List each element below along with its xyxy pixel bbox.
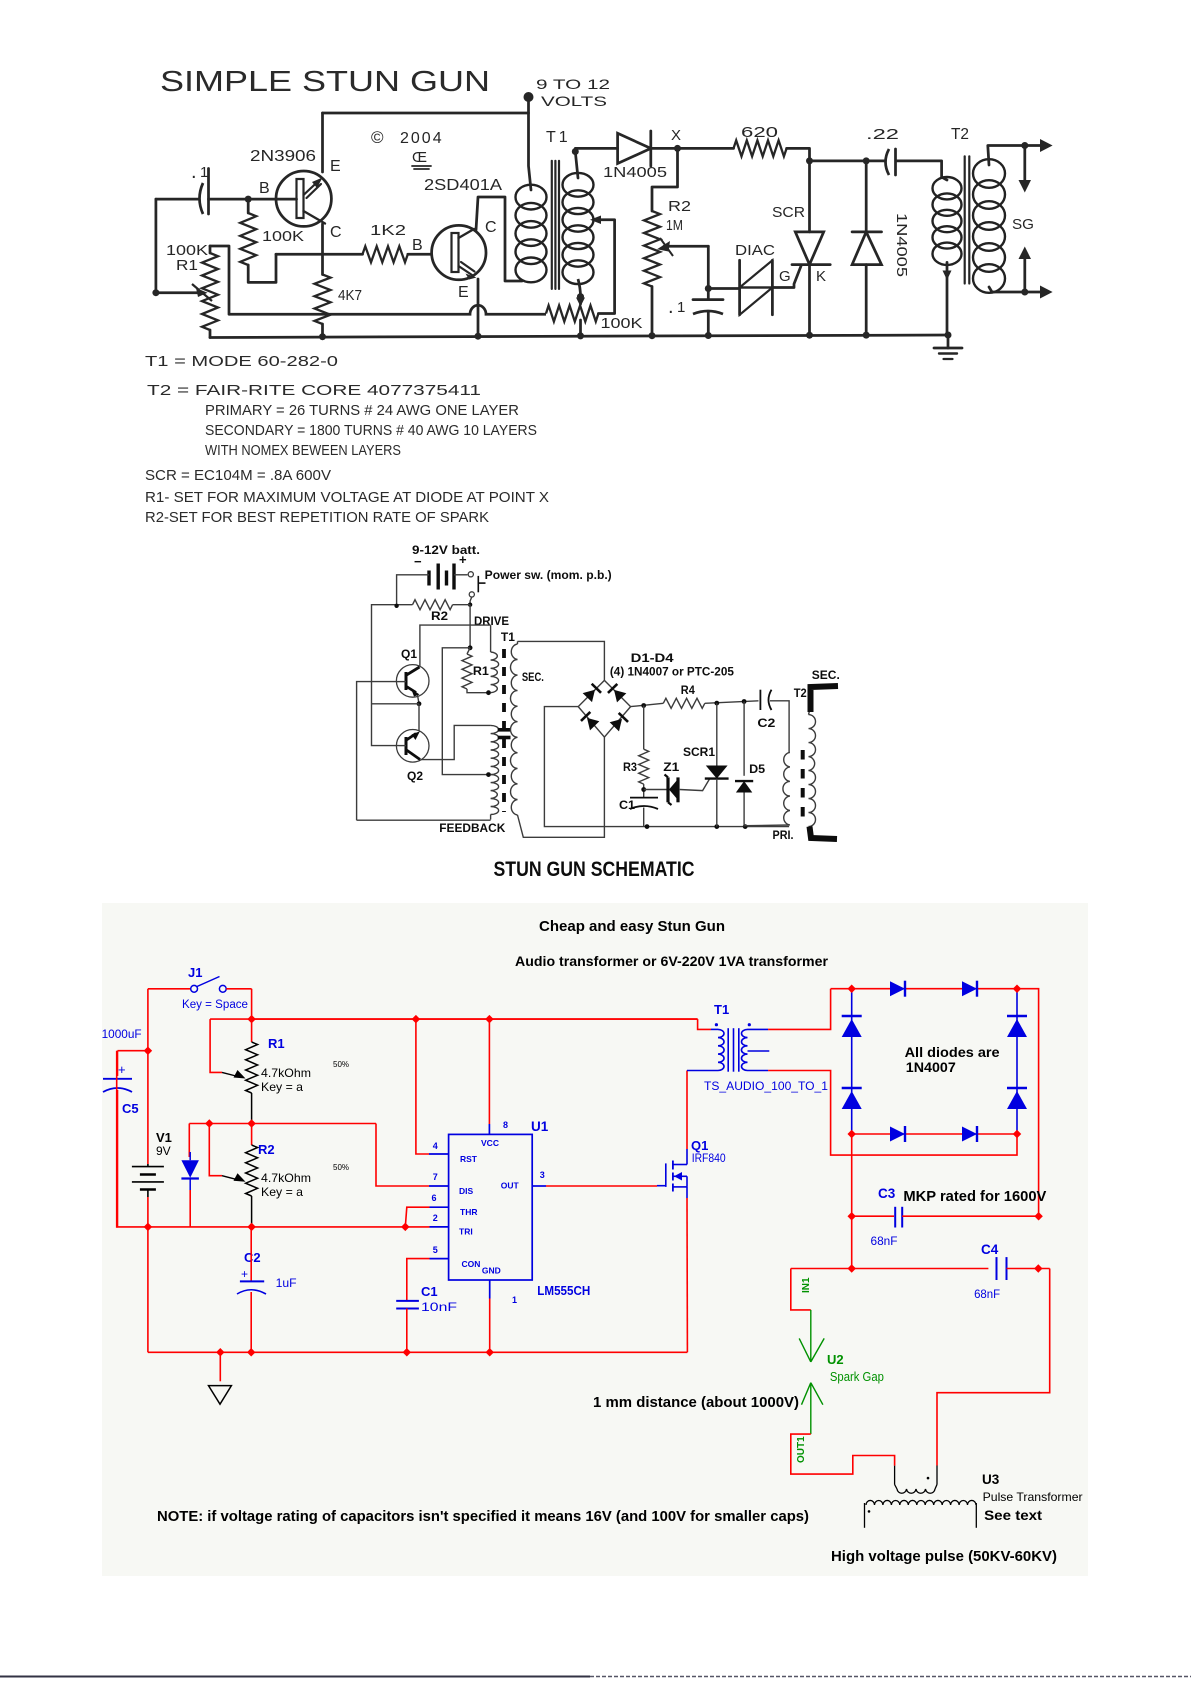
svg-text:OUT: OUT — [501, 1181, 520, 1191]
mid rail — [189, 1123, 376, 1125]
svg-text:.: . — [668, 296, 675, 318]
zener Z1 — [644, 789, 667, 791]
svg-text:G: G — [779, 268, 792, 285]
transformer T2 core — [964, 156, 966, 283]
svg-text:NOTE: if voltage rating of cap: NOTE: if voltage rating of capacitors is… — [157, 1509, 809, 1525]
svg-text:V1: V1 — [156, 1130, 172, 1145]
svg-text:Power sw. (mom. p.b.): Power sw. (mom. p.b.) — [485, 568, 612, 582]
wire collector Q2 to T1 primary — [476, 197, 522, 281]
wire collector Q1 line — [276, 253, 363, 256]
wire J1 right down — [251, 989, 253, 1019]
SCR EC104M — [808, 161, 811, 232]
svg-text:68nF: 68nF — [871, 1234, 898, 1248]
diode bridge right2 — [1007, 1091, 1027, 1109]
node X — [651, 147, 734, 150]
svg-text:C5: C5 — [122, 1101, 139, 1116]
svg-text:2: 2 — [433, 1213, 438, 1223]
svg-text:R3: R3 — [623, 760, 637, 774]
wire base Q2 — [408, 253, 432, 256]
svg-text:High voltage pulse (50KV-60KV): High voltage pulse (50KV-60KV) — [831, 1549, 1057, 1565]
potentiometer R2 1M — [644, 211, 660, 287]
tri rail — [117, 1226, 430, 1228]
pin 3 OUT — [532, 1185, 546, 1187]
node C1 gnd — [645, 824, 650, 829]
svg-text:1M: 1M — [666, 217, 683, 234]
wire X to R2 — [652, 148, 678, 211]
transistor Q2 2SD401A — [432, 225, 486, 279]
svg-text:1N4007: 1N4007 — [906, 1059, 956, 1075]
pin 6 THR — [430, 1206, 449, 1208]
svg-text:50%: 50% — [333, 1163, 349, 1172]
svg-text:T2: T2 — [951, 126, 969, 143]
pin 1 GND — [489, 1280, 491, 1299]
svg-text:9-12V batt.: 9-12V batt. — [412, 543, 480, 557]
svg-text:T1: T1 — [714, 1002, 729, 1017]
wire bridge minus rail — [544, 707, 789, 827]
wire left vertical — [155, 199, 158, 293]
svg-text:J1: J1 — [188, 965, 202, 980]
svg-text:B: B — [412, 237, 424, 254]
svg-text:Key = Space: Key = Space — [182, 999, 248, 1011]
svg-text:D5: D5 — [749, 762, 765, 776]
svg-text:E: E — [458, 284, 470, 301]
svg-text:9 TO 12: 9 TO 12 — [536, 76, 610, 92]
wire sec top to bridge — [518, 641, 605, 680]
svg-text:R1: R1 — [268, 1036, 285, 1051]
T1 fb winding — [491, 725, 499, 774]
diode bridge left2 — [842, 1091, 862, 1109]
svg-text:WITH NOMEX BEWEEN LAYERS: WITH NOMEX BEWEEN LAYERS — [205, 442, 401, 459]
svg-text:Cheap and easy Stun Gun: Cheap and easy Stun Gun — [539, 918, 725, 935]
svg-text:7: 7 — [433, 1172, 438, 1182]
svg-text:E: E — [330, 158, 342, 175]
svg-text:LM555CH: LM555CH — [537, 1284, 590, 1298]
svg-text:SCR1: SCR1 — [683, 745, 715, 759]
svg-text:Pulse Transformer: Pulse Transformer — [983, 1490, 1083, 1504]
wire R2 wiper feed — [209, 1124, 222, 1176]
wire bridge minus down — [851, 1134, 853, 1216]
spark gap U2 — [791, 1269, 811, 1310]
wire T2 primary bottom arrow — [946, 262, 949, 336]
wire feedback line with hop — [229, 305, 546, 314]
svg-text:SG: SG — [1012, 216, 1034, 233]
wire input left — [156, 198, 199, 201]
svg-text:B: B — [259, 180, 271, 197]
svg-text:1K2: 1K2 — [370, 222, 406, 239]
svg-text:C: C — [485, 219, 498, 236]
svg-text:.: . — [191, 161, 198, 183]
wire right column down — [937, 1269, 1050, 1466]
wire to DIS — [376, 1124, 429, 1187]
node SCR anode — [810, 160, 885, 163]
svg-text:SCR = EC104M = .8A 600V: SCR = EC104M = .8A 600V — [145, 467, 331, 484]
resistor 4K7 — [315, 275, 331, 325]
wire sec bottom to bridge — [768, 1071, 1017, 1156]
svg-text:T1 = MODE 60-282-0: T1 = MODE 60-282-0 — [145, 353, 338, 370]
svg-text:4K7: 4K7 — [338, 287, 362, 304]
svg-text:T1: T1 — [501, 630, 515, 644]
wire SG bottom arrow — [989, 287, 1025, 292]
wire centertap feed — [442, 648, 487, 775]
wire bottom rail — [210, 335, 948, 338]
wire feedback line — [357, 819, 491, 821]
svg-text:R2: R2 — [431, 609, 448, 623]
transformer T2 primary coil — [933, 177, 962, 199]
wire source down — [686, 1187, 688, 1198]
T1 gap bars — [498, 728, 511, 732]
capacitor C2 — [759, 690, 761, 710]
svg-text:Q1: Q1 — [401, 647, 417, 661]
wire J1 left down — [147, 989, 149, 1051]
svg-text:T1: T1 — [546, 129, 571, 146]
T1 drive winding — [490, 625, 492, 652]
svg-text:100K: 100K — [601, 315, 643, 332]
transformer T1 primary coil — [516, 185, 547, 210]
wire spark gap out — [791, 1434, 895, 1474]
resistor R4 — [663, 698, 705, 708]
diode bridge top2 — [962, 981, 977, 996]
wire drain up — [686, 1071, 688, 1150]
wire Q1 collector to DRIVE — [420, 625, 491, 666]
diode bridge top1 — [890, 981, 905, 996]
pulse transformer U3 secondary — [866, 1500, 976, 1505]
svg-text:Audio transformer or 6V-220V 1: Audio transformer or 6V-220V 1VA transfo… — [515, 953, 829, 969]
svg-text:OUT1: OUT1 — [796, 1436, 807, 1463]
svg-text:8: 8 — [503, 1120, 508, 1130]
svg-text:1000uF: 1000uF — [102, 1027, 142, 1041]
svg-text:SIMPLE STUN GUN: SIMPLE STUN GUN — [160, 66, 490, 98]
wire THR bend — [405, 1207, 429, 1227]
wire R1 top loop — [210, 246, 229, 314]
svg-text:1: 1 — [512, 1295, 517, 1305]
potentiometer R1 100K — [202, 253, 218, 330]
node battery positive dot — [524, 92, 534, 102]
wire pot tap to T1 — [594, 220, 615, 314]
diode 1N4005 series — [618, 133, 651, 163]
bridge rectangle — [831, 988, 1017, 990]
wire 620 to SCR node — [787, 148, 810, 161]
svg-text:C1: C1 — [619, 798, 635, 812]
diode bridge left1 — [842, 1019, 862, 1037]
svg-text:1uF: 1uF — [276, 1276, 297, 1290]
svg-text:Spark Gap: Spark Gap — [830, 1370, 884, 1384]
svg-text:CON: CON — [462, 1259, 481, 1269]
wire R1 wiper feed — [210, 1019, 222, 1072]
svg-text:THR: THR — [460, 1207, 477, 1217]
svg-text:+: + — [459, 552, 467, 567]
wire sec bottom to bridge — [518, 737, 605, 837]
svg-text:T2 = FAIR-RITE CORE 4077375411: T2 = FAIR-RITE CORE 4077375411 — [147, 382, 481, 399]
wire T1 fb bottom to wiper — [579, 297, 582, 304]
svg-text:GND: GND — [482, 1266, 501, 1276]
wire emitter Q2 down — [477, 279, 480, 336]
diode D blue — [188, 1124, 190, 1158]
svg-text:2N3906: 2N3906 — [250, 148, 316, 165]
node base junction — [245, 196, 252, 203]
wire T1 secondary top — [575, 148, 617, 178]
svg-text:DIS: DIS — [459, 1186, 474, 1196]
svg-text:Key = a: Key = a — [261, 1185, 303, 1199]
transistor Q1 — [396, 665, 429, 698]
svg-text:4: 4 — [433, 1141, 438, 1151]
wire C3 node down to C4 rail — [851, 1216, 853, 1268]
svg-text:Key = a: Key = a — [261, 1080, 303, 1094]
svg-text:1N4005: 1N4005 — [603, 164, 667, 181]
pin 5 CON — [430, 1258, 449, 1260]
T1 core dashes — [502, 649, 506, 812]
svg-text:RST: RST — [460, 1154, 478, 1164]
wire Q2 base — [399, 745, 406, 747]
wire SCR gate — [774, 266, 802, 288]
svg-text:STUN GUN SCHEMATIC: STUN GUN SCHEMATIC — [494, 858, 695, 881]
svg-text:R1: R1 — [176, 257, 198, 274]
svg-text:4.7kOhm: 4.7kOhm — [261, 1171, 311, 1185]
svg-text:Œ: Œ — [412, 149, 427, 166]
wire emitter Q1 up — [321, 113, 324, 172]
capacitor C1 — [630, 797, 658, 799]
switch power momentary — [454, 574, 468, 576]
svg-text:R2: R2 — [668, 198, 691, 215]
resistor 100K base pulldown — [240, 213, 256, 265]
svg-text:SEC.: SEC. — [522, 670, 544, 684]
diode bridge right1 — [1007, 1019, 1027, 1037]
svg-text:SEC.: SEC. — [812, 668, 840, 682]
svg-text:X: X — [671, 127, 681, 144]
svg-text:+: + — [118, 1062, 126, 1077]
svg-text:C2: C2 — [244, 1250, 261, 1265]
wire T1 primary top to battery — [529, 97, 532, 190]
svg-text:.22: .22 — [866, 126, 899, 143]
svg-text:68nF: 68nF — [974, 1287, 1000, 1301]
wire Q2 collector to primary lower — [421, 725, 491, 759]
diode bridge bot2 — [962, 1127, 977, 1142]
T1 secondary winding — [517, 641, 519, 644]
svg-text:SECONDARY = 1800 TURNS # 40: SECONDARY = 1800 TURNS # 40 AWG 10 LAYER… — [205, 422, 537, 439]
pin 2 TRI — [430, 1226, 449, 1228]
svg-text:C4: C4 — [981, 1242, 999, 1257]
wire R1 wiper arrow — [156, 291, 200, 294]
svg-text:C: C — [330, 224, 343, 241]
transformer T1 core — [551, 161, 553, 289]
svg-text:1N4005: 1N4005 — [893, 213, 910, 277]
pin 7 DIS — [429, 1185, 449, 1187]
ground rail — [148, 1351, 688, 1353]
svg-text:+: + — [241, 1267, 248, 1281]
wire C2 to T2 — [770, 701, 789, 753]
svg-text:D1-D4: D1-D4 — [631, 651, 674, 665]
svg-text:U3: U3 — [982, 1472, 1000, 1487]
svg-text:R1- SET FOR MAXIMUM VOLTAGE AT: R1- SET FOR MAXIMUM VOLTAGE AT DIODE AT … — [145, 489, 549, 506]
svg-text:1 mm distance (about 1000V): 1 mm distance (about 1000V) — [593, 1394, 799, 1411]
wire switch to junction — [470, 597, 472, 605]
svg-text:−: − — [414, 554, 422, 569]
diode 1N4005 freewheel — [865, 161, 868, 232]
wire SG top arrow — [988, 146, 1025, 166]
svg-text:9V: 9V — [156, 1144, 171, 1158]
resistor 620 — [734, 140, 787, 156]
svg-text:TS_AUDIO_100_TO_1: TS_AUDIO_100_TO_1 — [704, 1081, 828, 1093]
svg-text:R2: R2 — [258, 1142, 275, 1157]
resistor R3 — [643, 706, 645, 750]
wire R2 wiper — [664, 245, 708, 248]
svg-text:3: 3 — [540, 1170, 545, 1180]
capacitor .1 timing — [693, 298, 723, 301]
transformer T1 secondary coil — [563, 173, 594, 197]
wire R4 to C2 — [705, 701, 759, 704]
svg-text:100K: 100K — [262, 228, 304, 245]
C4 rail — [791, 1268, 989, 1270]
pin 4 RST — [416, 1019, 429, 1154]
wire OUT to gate — [546, 1185, 657, 1187]
wire to DIAC — [708, 287, 739, 290]
svg-text:Z1: Z1 — [663, 760, 679, 774]
svg-text:PRI.: PRI. — [773, 828, 794, 842]
svg-text:See text: See text — [984, 1507, 1042, 1523]
svg-text:C3: C3 — [878, 1186, 896, 1201]
svg-text:DRIVE: DRIVE — [474, 614, 509, 628]
svg-text:R2-SET FOR BEST REPETITION RAT: R2-SET FOR BEST REPETITION RATE OF SPARK — [145, 509, 489, 526]
wire top rail E to battery — [323, 112, 529, 115]
ground symbol — [219, 1352, 221, 1381]
svg-text:MKP rated for 1600V: MKP rated for 1600V — [903, 1189, 1046, 1205]
svg-text:U1: U1 — [531, 1119, 549, 1134]
svg-text:Q2: Q2 — [407, 769, 423, 783]
diode bridge bot1 — [890, 1127, 905, 1142]
wire T2 sec terminal bottom — [810, 827, 838, 840]
svg-text:620: 620 — [741, 124, 778, 141]
pulse transformer U3 primary — [894, 1466, 896, 1485]
resistor 100K feedback pot — [546, 306, 598, 322]
node R1 wiper — [152, 289, 159, 296]
svg-text:6: 6 — [432, 1193, 437, 1203]
resistor 1K2 — [363, 246, 408, 262]
svg-text:T2: T2 — [794, 686, 807, 700]
svg-text:VCC: VCC — [481, 1138, 499, 1148]
transformer T2 secondary coil — [973, 159, 1005, 188]
wire Q1 emitter junction — [418, 695, 420, 704]
svg-text:FEEDBACK: FEEDBACK — [439, 821, 505, 835]
pin 8 VCC — [488, 1019, 490, 1124]
svg-text:5: 5 — [433, 1245, 438, 1255]
svg-text:1: 1 — [677, 299, 687, 316]
svg-text:R4: R4 — [681, 683, 695, 697]
page bottom rule — [0, 1676, 590, 1678]
capacitor .22 — [886, 149, 890, 175]
resistor R1 — [462, 654, 472, 689]
transistor Q1 2N3906 — [276, 171, 331, 226]
svg-text:VOLTS: VOLTS — [541, 93, 607, 109]
svg-text:2004: 2004 — [400, 130, 444, 147]
svg-text:C1: C1 — [421, 1284, 438, 1299]
svg-text:2SD401A: 2SD401A — [424, 177, 502, 194]
wire Z1 to gate — [680, 779, 710, 791]
svg-text:All diodes are: All diodes are — [905, 1044, 1000, 1060]
wire V down — [147, 1227, 149, 1352]
wire R2 left — [372, 605, 413, 746]
ground symbol — [947, 335, 950, 348]
svg-text:K: K — [816, 268, 827, 285]
wire base Q1 — [209, 198, 297, 201]
wire drive feed — [469, 605, 471, 648]
grey canvas bottom schematic — [102, 903, 1088, 1576]
wire battery minus — [397, 575, 429, 606]
svg-text:PRIMARY = 26 TURNS # 24 AWG: PRIMARY = 26 TURNS # 24 AWG ONE LAYER — [205, 402, 519, 419]
svg-text:TRI: TRI — [459, 1227, 473, 1237]
svg-text:50%: 50% — [333, 1060, 349, 1069]
svg-text:IRF840: IRF840 — [692, 1151, 726, 1165]
svg-text:IN1: IN1 — [801, 1277, 812, 1293]
svg-text:©: © — [371, 128, 384, 147]
vcc rail — [210, 1018, 697, 1020]
DIAC — [738, 260, 741, 315]
wire cap to T2 — [897, 161, 948, 180]
svg-text:SCR: SCR — [772, 204, 805, 221]
svg-text:(4) 1N4007 or PTC-205: (4) 1N4007 or PTC-205 — [610, 665, 734, 679]
wire Q1 base — [396, 681, 406, 683]
svg-text:R1: R1 — [473, 664, 489, 678]
svg-text:U2: U2 — [827, 1352, 844, 1367]
transistor Q2 — [396, 730, 429, 763]
wire T1 fb bottom curve — [578, 279, 581, 297]
wire sec top to bridge — [768, 989, 831, 1030]
svg-text:4.7kOhm: 4.7kOhm — [261, 1066, 311, 1080]
svg-text:10nF: 10nF — [421, 1300, 457, 1314]
resistor R2 — [413, 600, 453, 610]
svg-text:DIAC: DIAC — [735, 242, 775, 259]
wire T2 pri bottom rail — [745, 824, 789, 827]
wire bridge plus to R4 — [631, 703, 664, 706]
svg-text:C2: C2 — [757, 716, 775, 730]
